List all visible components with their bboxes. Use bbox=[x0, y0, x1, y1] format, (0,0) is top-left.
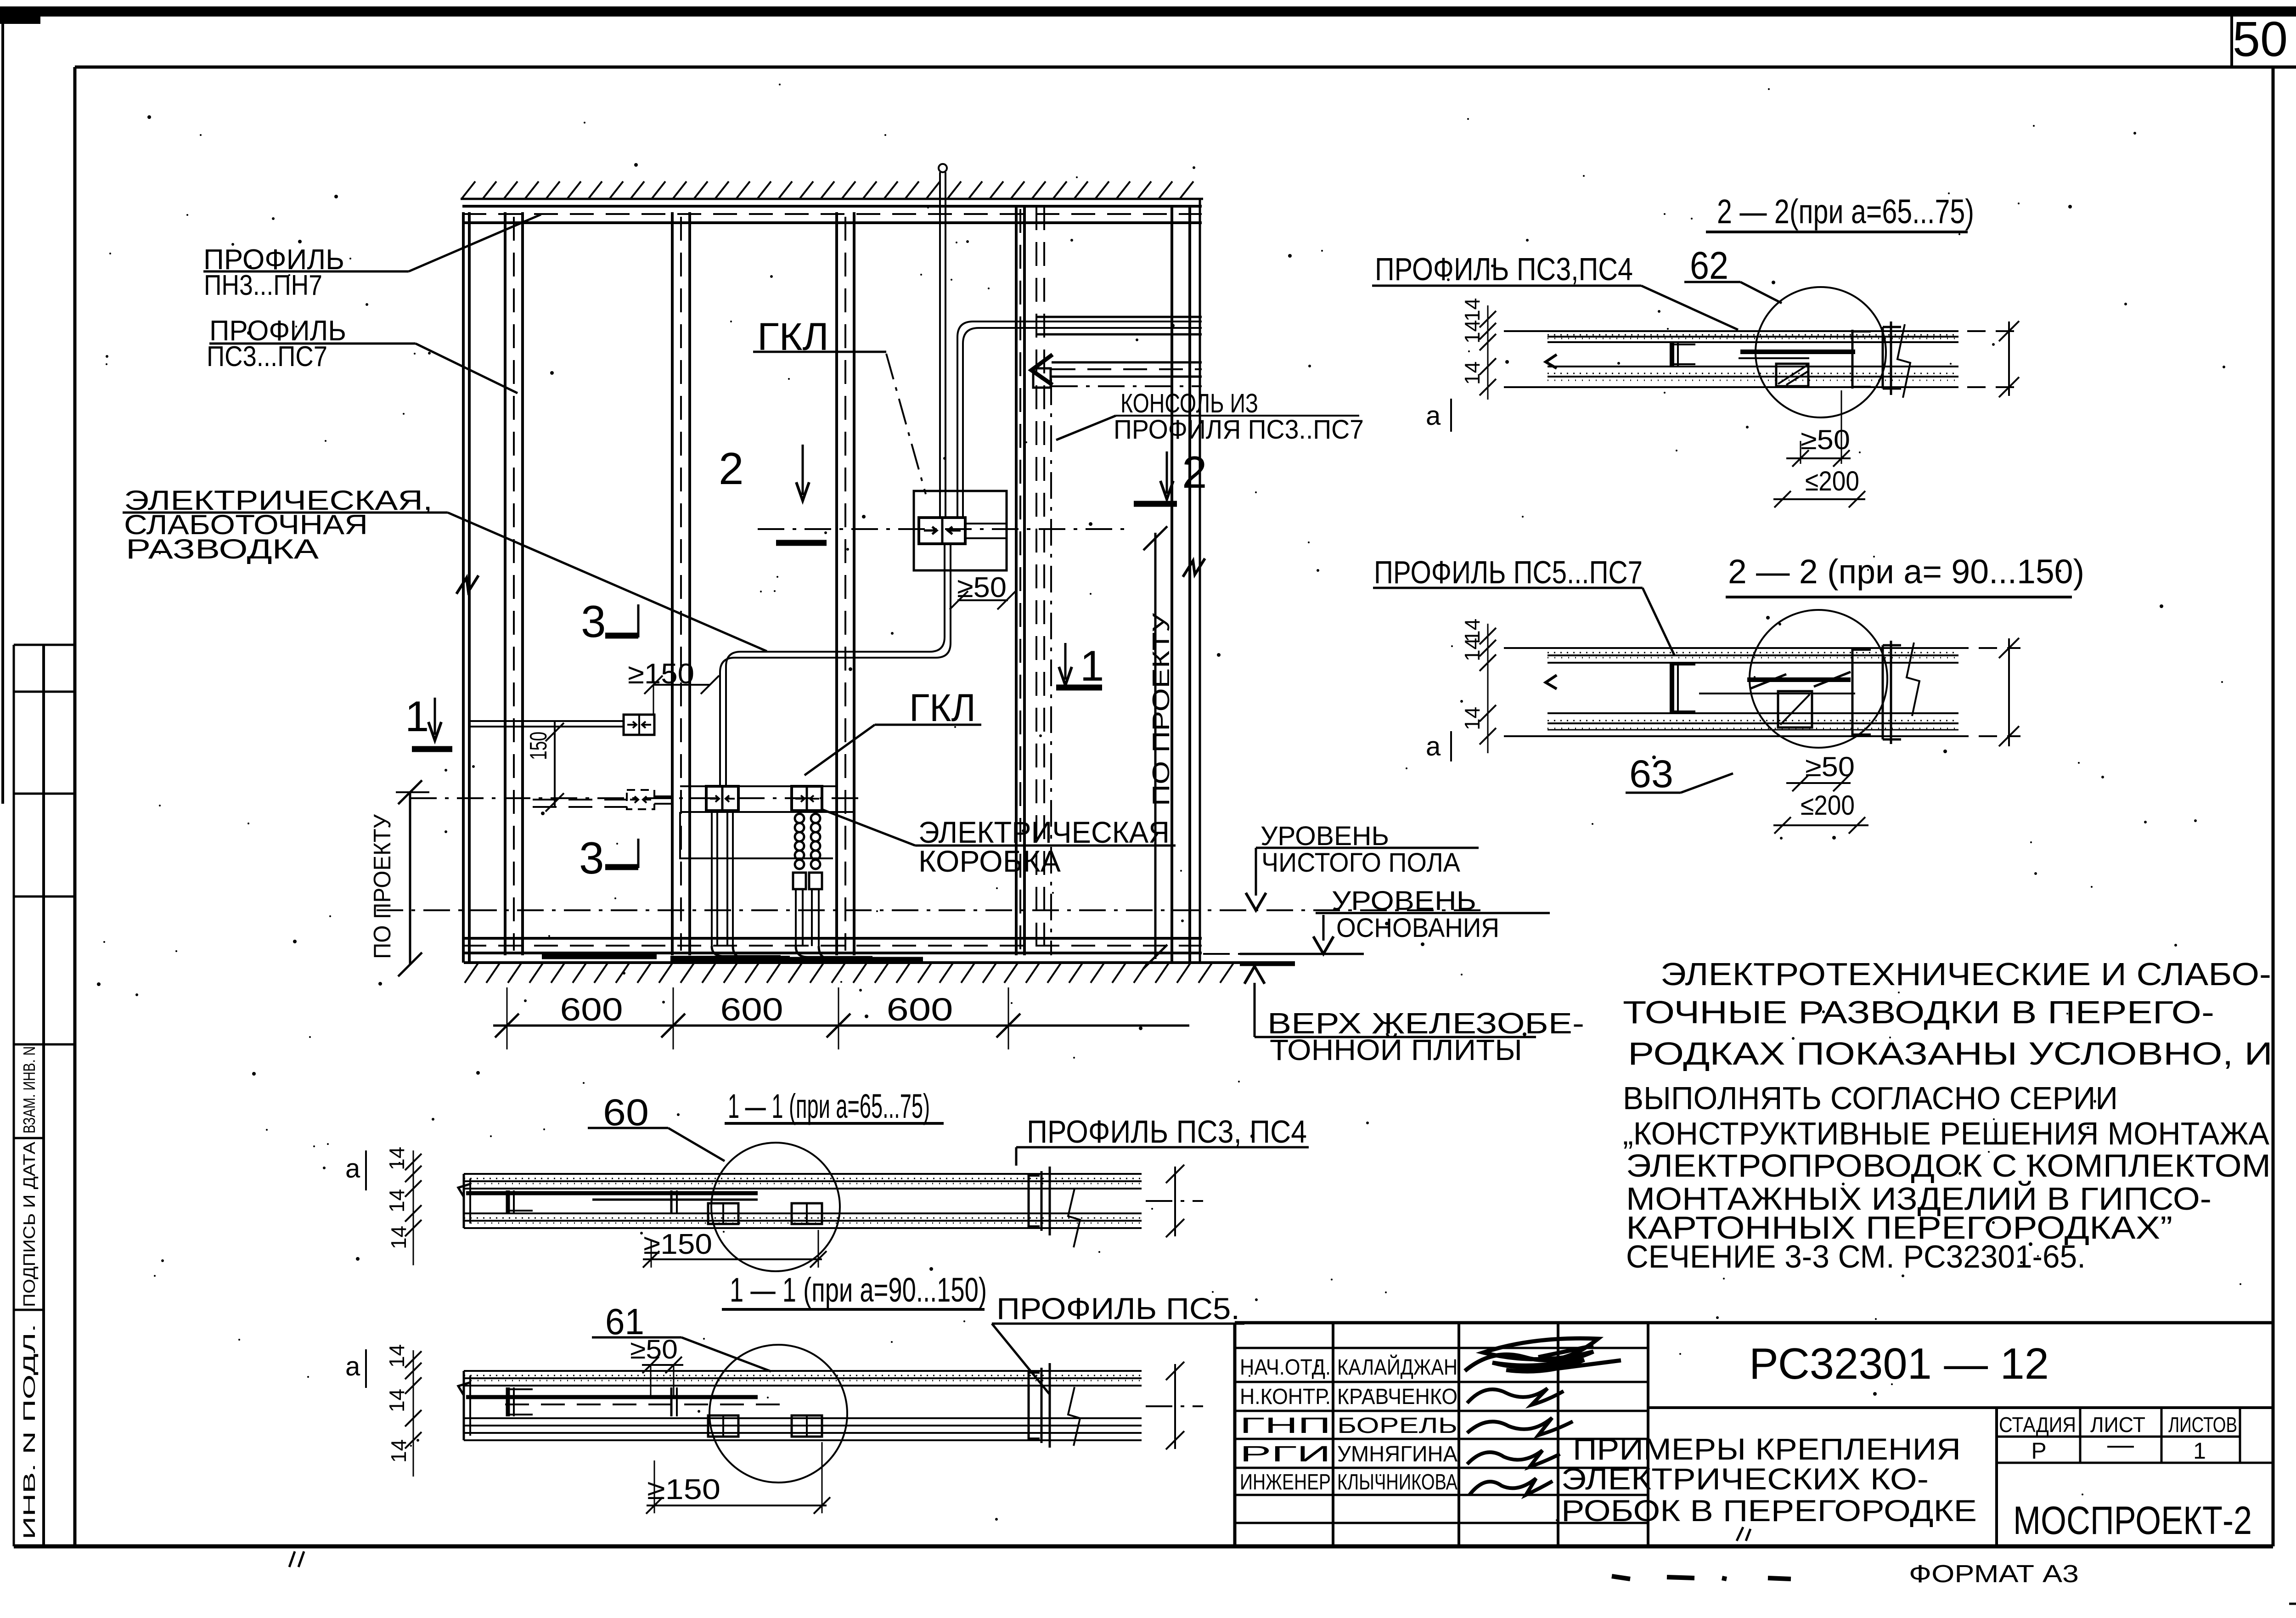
svg-text:63: 63 bbox=[1629, 752, 1673, 795]
svg-text:БОРЕЛЬ: БОРЕЛЬ bbox=[1337, 1414, 1458, 1438]
svg-text:14: 14 bbox=[385, 1344, 409, 1368]
svg-text:≤200: ≤200 bbox=[1805, 466, 1859, 496]
svg-text:СЕЧЕНИЕ 3-3 СМ. РС32301-65.: СЕЧЕНИЕ 3-3 СМ. РС32301-65. bbox=[1626, 1239, 2086, 1274]
svg-text:14: 14 bbox=[1460, 638, 1484, 661]
svg-text:ВЫПОЛНЯТЬ СОГЛАСНО СЕРИИ: ВЫПОЛНЯТЬ СОГЛАСНО СЕРИИ bbox=[1623, 1080, 2118, 1116]
svg-text:3: 3 bbox=[581, 596, 606, 647]
svg-text:УРОВЕНЬ: УРОВЕНЬ bbox=[1261, 821, 1389, 851]
svg-text:РОДКАХ ПОКАЗАНЫ УСЛОВНО, И: РОДКАХ ПОКАЗАНЫ УСЛОВНО, И bbox=[1628, 1036, 2273, 1071]
svg-text:ФОРМАТ А3: ФОРМАТ А3 bbox=[1909, 1560, 2079, 1588]
svg-text:1: 1 bbox=[405, 692, 429, 740]
svg-text:14: 14 bbox=[387, 1226, 411, 1249]
svg-text:50: 50 bbox=[2233, 11, 2288, 67]
svg-text:ПО ПРОЕКТУ: ПО ПРОЕКТУ bbox=[369, 814, 396, 959]
svg-text:2: 2 bbox=[1182, 447, 1207, 497]
svg-text:„КОНСТРУКТИВНЫЕ РЕШЕНИЯ МОНТАЖ: „КОНСТРУКТИВНЫЕ РЕШЕНИЯ МОНТАЖА bbox=[1623, 1116, 2269, 1151]
svg-text:Р: Р bbox=[2031, 1438, 2046, 1464]
svg-text:ГКЛ: ГКЛ bbox=[909, 686, 976, 729]
svg-text:РОБОК В ПЕРЕГОРОДКЕ: РОБОК В ПЕРЕГОРОДКЕ bbox=[1561, 1494, 1977, 1528]
svg-text:ЭЛЕКТРОПРОВОДОК С КОМПЛЕКТОМ: ЭЛЕКТРОПРОВОДОК С КОМПЛЕКТОМ bbox=[1626, 1148, 2271, 1184]
svg-text:КОРОБКА: КОРОБКА bbox=[918, 844, 1061, 878]
svg-text:а: а bbox=[1426, 401, 1441, 431]
svg-text:ЛИСТОВ: ЛИСТОВ bbox=[2168, 1413, 2237, 1437]
svg-text:КЛЫЧНИКОВА: КЛЫЧНИКОВА bbox=[1337, 1470, 1458, 1494]
svg-text:ПРОФИЛЬ ПС5.: ПРОФИЛЬ ПС5. bbox=[996, 1291, 1240, 1325]
svg-text:ТОЧНЫЕ РАЗВОДКИ В ПЕРЕГО-: ТОЧНЫЕ РАЗВОДКИ В ПЕРЕГО- bbox=[1623, 994, 2214, 1030]
svg-text:2 — 2 (при а= 90...150): 2 — 2 (при а= 90...150) bbox=[1728, 552, 2084, 591]
svg-text:ТОННОЙ ПЛИТЫ: ТОННОЙ ПЛИТЫ bbox=[1270, 1033, 1522, 1066]
svg-text:ПС3...ПС7: ПС3...ПС7 bbox=[207, 341, 327, 372]
svg-text:2: 2 bbox=[719, 443, 744, 494]
svg-text:600: 600 bbox=[887, 992, 953, 1027]
svg-text:ИНЖЕНЕР: ИНЖЕНЕР bbox=[1240, 1470, 1331, 1494]
svg-text:КОНСОЛЬ ИЗ: КОНСОЛЬ ИЗ bbox=[1120, 389, 1258, 418]
svg-text:ЧИСТОГО ПОЛА: ЧИСТОГО ПОЛА bbox=[1261, 848, 1460, 878]
svg-text:ПРОФИЛЬ ПС3, ПС4: ПРОФИЛЬ ПС3, ПС4 bbox=[1027, 1114, 1307, 1150]
svg-text:СТАДИЯ: СТАДИЯ bbox=[1999, 1413, 2076, 1437]
svg-text:1 — 1 (при а=65...75): 1 — 1 (при а=65...75) bbox=[728, 1087, 930, 1125]
svg-text:3: 3 bbox=[579, 833, 604, 883]
svg-text:14: 14 bbox=[1460, 361, 1484, 385]
svg-text:ЭЛЕКТРИЧЕСКИХ КО-: ЭЛЕКТРИЧЕСКИХ КО- bbox=[1561, 1462, 1929, 1496]
svg-text:ПО ПРОЕКТУ: ПО ПРОЕКТУ bbox=[1148, 613, 1175, 806]
svg-text:600: 600 bbox=[720, 992, 783, 1027]
svg-text:14: 14 bbox=[385, 1147, 409, 1170]
svg-text:а: а bbox=[345, 1154, 360, 1184]
svg-text:ПРОФИЛЬ ПС3,ПС4: ПРОФИЛЬ ПС3,ПС4 bbox=[1375, 251, 1633, 287]
svg-text:—: — bbox=[2107, 1430, 2134, 1460]
svg-text:1: 1 bbox=[2193, 1438, 2206, 1464]
svg-text:14: 14 bbox=[1460, 320, 1484, 344]
svg-text:2 — 2(при а=65...75): 2 — 2(при а=65...75) bbox=[1717, 192, 1974, 231]
svg-text:РГИ: РГИ bbox=[1240, 1442, 1331, 1466]
svg-text:≥150: ≥150 bbox=[643, 1229, 712, 1260]
svg-text:РС32301 — 12: РС32301 — 12 bbox=[1749, 1339, 2049, 1388]
svg-text:УРОВЕНЬ: УРОВЕНЬ bbox=[1332, 886, 1476, 916]
svg-text:14: 14 bbox=[1460, 298, 1484, 321]
svg-text:ГНП: ГНП bbox=[1240, 1414, 1331, 1438]
svg-text:150: 150 bbox=[525, 732, 552, 760]
svg-text:≥50: ≥50 bbox=[957, 572, 1007, 603]
svg-text:14: 14 bbox=[385, 1189, 409, 1212]
svg-text:РАЗВОДКА: РАЗВОДКА bbox=[126, 534, 319, 564]
svg-text:≤200: ≤200 bbox=[1801, 790, 1855, 821]
svg-text:ИНВ. N ПОДЛ.: ИНВ. N ПОДЛ. bbox=[20, 1324, 39, 1539]
svg-text:ЭЛЕКТРОТЕХНИЧЕСКИЕ И СЛАБО-: ЭЛЕКТРОТЕХНИЧЕСКИЕ И СЛАБО- bbox=[1660, 956, 2271, 992]
svg-text:ОСНОВАНИЯ: ОСНОВАНИЯ bbox=[1336, 913, 1499, 943]
svg-text:≥50: ≥50 bbox=[630, 1335, 678, 1364]
svg-text:14: 14 bbox=[1460, 707, 1484, 730]
svg-text:1 — 1 (при а=90...150): 1 — 1 (при а=90...150) bbox=[730, 1271, 987, 1309]
svg-text:600: 600 bbox=[560, 992, 623, 1027]
svg-text:а: а bbox=[345, 1352, 360, 1381]
svg-text:1: 1 bbox=[1080, 642, 1104, 690]
svg-text:МОСПРОЕКТ-2: МОСПРОЕКТ-2 bbox=[2013, 1499, 2252, 1543]
svg-text:ПРОФИЛЬ ПС5...ПС7: ПРОФИЛЬ ПС5...ПС7 bbox=[1374, 554, 1643, 590]
svg-text:ПОДПИСЬ И ДАТА: ПОДПИСЬ И ДАТА bbox=[20, 1142, 39, 1307]
svg-text:62: 62 bbox=[1690, 244, 1728, 287]
svg-text:а: а bbox=[1426, 732, 1441, 761]
svg-text:ВЗАМ. ИНВ. N: ВЗАМ. ИНВ. N bbox=[20, 1046, 39, 1133]
svg-text:НАЧ.ОТД.: НАЧ.ОТД. bbox=[1240, 1355, 1331, 1380]
svg-text:ПРИМЕРЫ КРЕПЛЕНИЯ: ПРИМЕРЫ КРЕПЛЕНИЯ bbox=[1573, 1432, 1961, 1466]
svg-text:ПН3...ПН7: ПН3...ПН7 bbox=[204, 270, 322, 301]
svg-text:Н.КОНТР.: Н.КОНТР. bbox=[1240, 1385, 1331, 1409]
svg-text:КРАВЧЕНКО: КРАВЧЕНКО bbox=[1337, 1385, 1458, 1409]
svg-text:КАЛАЙДЖАН: КАЛАЙДЖАН bbox=[1337, 1354, 1458, 1380]
svg-text:ПРОФИЛЯ ПС3..ПС7: ПРОФИЛЯ ПС3..ПС7 bbox=[1114, 415, 1364, 445]
svg-text:УМНЯГИНА: УМНЯГИНА bbox=[1337, 1442, 1458, 1466]
svg-text:14: 14 bbox=[385, 1389, 409, 1412]
svg-text:14: 14 bbox=[387, 1439, 411, 1463]
